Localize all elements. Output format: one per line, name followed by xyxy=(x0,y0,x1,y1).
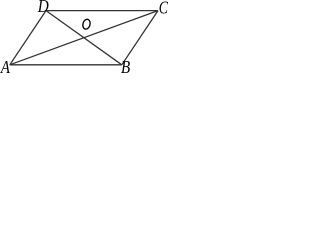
svg-text:B: B xyxy=(121,57,130,73)
side AB xyxy=(10,64,122,66)
side BC xyxy=(122,11,158,65)
svg-text:C: C xyxy=(159,0,168,17)
diagonal AC xyxy=(10,11,158,65)
svg-text:D: D xyxy=(37,0,49,16)
diagonal BD xyxy=(46,11,122,65)
svg-text:A: A xyxy=(0,57,10,73)
side DA xyxy=(10,11,46,65)
side CD xyxy=(46,10,158,12)
label O xyxy=(82,18,91,29)
